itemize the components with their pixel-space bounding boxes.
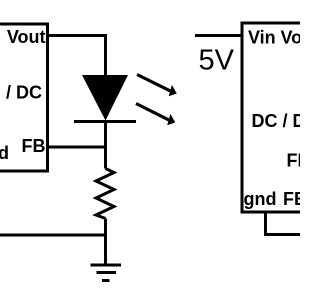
svg-text:Vout: Vout — [7, 27, 46, 47]
wire from resistor R1 to ground — [104, 219, 107, 264]
svg-text:/ DC: / DC — [6, 83, 42, 103]
svg-text:FB: FB — [22, 136, 46, 156]
svg-text:Vin: Vin — [248, 28, 276, 48]
svg-text:Vout: Vout — [281, 28, 301, 48]
ground — [91, 265, 122, 281]
resistor R1 — [96, 169, 114, 219]
wire from LED cathode down to resistor R1 — [104, 122, 107, 169]
converter U1 (left DC/DC module, clipped at left edge) — [0, 24, 48, 171]
LED D1 triangle — [82, 75, 128, 121]
svg-text:FB: FB — [287, 151, 301, 171]
LED light arrow 2 — [136, 104, 175, 126]
LED D1 cathode bar — [74, 120, 136, 123]
svg-text:FB: FB — [283, 189, 300, 209]
wire from U2 gnd down and right (clipped at right edge) — [266, 212, 301, 235]
LED light arrow 1 — [137, 75, 177, 97]
converter U2 (right DC/DC module, clipped at right edge) — [242, 23, 300, 212]
svg-text:gnd: gnd — [0, 143, 9, 163]
svg-text:DC / DC: DC / DC — [252, 111, 301, 131]
wire 5V supply to U2 Vin — [195, 34, 242, 37]
wire from U1 FB to LED cathode node — [48, 146, 106, 149]
svg-text:gnd: gnd — [244, 189, 277, 209]
wire from U1 Vout to LED anode — [48, 36, 106, 76]
ground rail wire (left, to U1 gnd off-screen) — [0, 234, 106, 237]
svg-text:5V: 5V — [199, 45, 235, 77]
